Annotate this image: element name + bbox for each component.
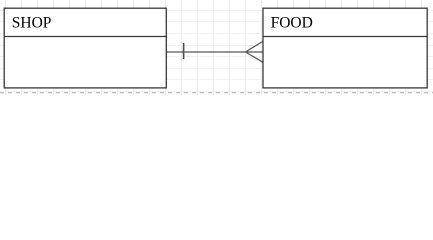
canvas background	[0, 0, 433, 95]
page boundary dashed line	[0, 92, 433, 94]
entity SHOP	[4, 8, 166, 88]
wire: relationship SHOP-FOOD	[166, 51, 245, 53]
svg-text:SHOP: SHOP	[12, 14, 52, 31]
crow's foot many (FOOD side)	[246, 41, 264, 62]
svg-text:FOOD: FOOD	[271, 14, 313, 31]
cardinality one tick (SHOP side)	[183, 43, 185, 59]
entity FOOD	[263, 8, 427, 88]
